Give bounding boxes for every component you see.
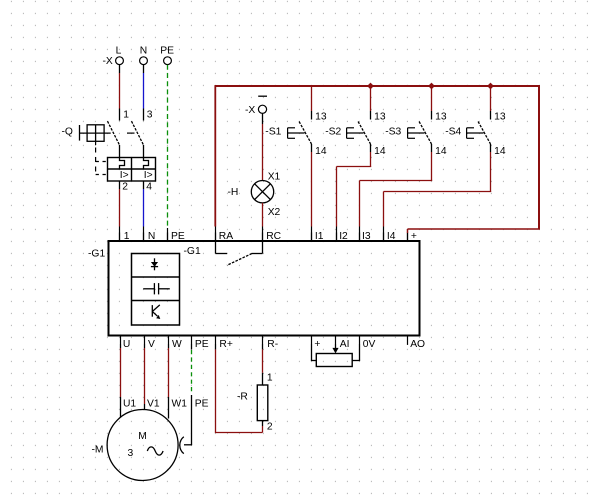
svg-text:RC: RC: [266, 231, 281, 242]
svg-text:-X: -X: [245, 105, 255, 116]
power module box inside G1: [132, 254, 180, 326]
G1 top terminal tick I4: [384, 231, 396, 242]
wire PE black tick into G1: [167, 228, 169, 241]
svg-text:-Q: -Q: [62, 127, 73, 138]
DC bus capacitor symbol: [143, 283, 170, 294]
svg-text:R-: R-: [267, 339, 278, 350]
wire W to motor: [168, 344, 170, 419]
wire N neutral: [143, 65, 145, 121]
breaker Q1 linkage horizontal dashed to trip block: [96, 162, 108, 175]
svg-text:0V: 0V: [363, 339, 376, 350]
G1 bottom terminal tick R-: [263, 336, 279, 351]
breaker Q1 thermal trip block: [108, 158, 156, 182]
potentiometer lead 0V: [352, 344, 360, 361]
svg-text:3: 3: [128, 448, 134, 459]
G1 bottom terminal tick PE: [192, 336, 209, 351]
svg-text:-G1: -G1: [184, 246, 201, 257]
G1 top terminal tick I3: [360, 231, 371, 242]
rectifier diode symbol: [151, 258, 158, 270]
svg-text:14: 14: [494, 146, 506, 157]
terminal L circle: [116, 46, 124, 65]
wire S1 to I1: [311, 152, 313, 241]
svg-text:-M: -M: [92, 445, 104, 456]
wire breaker pole1 to G1 terminal 1: [119, 181, 121, 241]
breaker Q1 thermal element pole 1: [120, 158, 125, 170]
svg-text:L: L: [116, 46, 122, 57]
wire PE green dashed: [167, 65, 169, 226]
svg-text:+: +: [411, 231, 417, 242]
svg-text:13: 13: [374, 111, 386, 122]
G1 top terminal tick RA: [216, 231, 234, 242]
inverter transistor symbol: [152, 305, 160, 319]
svg-text:-H: -H: [228, 187, 239, 198]
svg-text:1: 1: [267, 373, 273, 384]
svg-text:V: V: [148, 339, 155, 350]
G1 bottom terminal tick plus: [312, 336, 321, 351]
svg-text:-G1: -G1: [88, 249, 105, 260]
svg-text:14: 14: [374, 146, 386, 157]
wire resistor bottom: [262, 421, 264, 433]
potentiometer body: [316, 354, 352, 367]
lamp H1: [251, 181, 273, 203]
svg-text:4: 4: [146, 182, 152, 193]
wire S2 to I2: [337, 152, 372, 241]
breaker Q1 handle bar: [80, 125, 111, 141]
control bus top: [215, 85, 540, 87]
svg-text:N: N: [140, 46, 147, 57]
wire U to motor: [120, 344, 122, 418]
svg-text:-S3: -S3: [385, 127, 401, 138]
wire PE to motor frame: [184, 344, 192, 445]
svg-text:13: 13: [315, 111, 327, 122]
svg-text:1: 1: [123, 110, 129, 121]
wire L phase: [119, 65, 121, 121]
svg-text:I3: I3: [362, 231, 371, 242]
svg-text:PE: PE: [160, 46, 174, 57]
wire S3 to I3: [360, 152, 433, 241]
motor inner tilde: [147, 447, 163, 455]
breaker Q1 linkage dash: [127, 132, 135, 134]
svg-text:13: 13: [494, 111, 506, 122]
pushbutton S4: [467, 86, 491, 152]
svg-text:U1: U1: [123, 398, 136, 409]
svg-text:U: U: [123, 339, 130, 350]
wire R- to brake resistor: [262, 344, 264, 385]
wire V to motor: [144, 344, 146, 410]
wire bus left drop to RA: [214, 85, 216, 240]
brake resistor R: [257, 385, 268, 421]
G1 bottom terminal tick U: [121, 336, 131, 351]
pushbutton S1: [288, 86, 312, 152]
breaker Q1 pole 2 contact blade: [132, 121, 144, 145]
G1 bottom terminal tick AO: [408, 336, 426, 351]
G1 bottom terminal tick 0V: [360, 336, 376, 351]
junction dot at S4: [487, 83, 494, 90]
svg-text:N: N: [148, 231, 155, 242]
svg-text:R+: R+: [219, 339, 232, 350]
G1 top terminal tick RC: [263, 231, 282, 242]
terminal PE circle: [160, 46, 174, 65]
svg-text:RA: RA: [219, 231, 233, 242]
motor frame earth contact arc: [180, 437, 184, 454]
wire lamp to RC: [262, 203, 264, 241]
svg-text:2: 2: [267, 421, 273, 432]
svg-text:13: 13: [435, 111, 447, 122]
terminal N circle: [140, 46, 148, 65]
motor M1 circle: [107, 410, 178, 481]
svg-text:I>: I>: [144, 170, 153, 181]
G1 top terminal tick I1: [312, 231, 324, 242]
G1 bottom terminal tick AI: [336, 336, 350, 351]
G1 bottom terminal tick V: [145, 336, 156, 351]
svg-text:2: 2: [122, 182, 128, 193]
svg-text:W1: W1: [172, 398, 188, 409]
svg-text:+: +: [314, 339, 320, 350]
svg-text:14: 14: [315, 146, 327, 157]
svg-text:X1: X1: [268, 172, 281, 183]
G1 top terminal tick N: [144, 231, 156, 242]
svg-text:M: M: [138, 431, 147, 442]
breaker Q1 linkage vertical dashed: [95, 141, 97, 145]
svg-text:14: 14: [435, 146, 447, 157]
svg-text:3: 3: [147, 110, 153, 121]
svg-text:I4: I4: [387, 231, 396, 242]
svg-text:AO: AO: [410, 339, 425, 350]
svg-text:-S4: -S4: [445, 127, 461, 138]
svg-text:X2: X2: [268, 207, 281, 218]
G1 top terminal tick I2: [337, 231, 349, 242]
svg-text:AI: AI: [340, 339, 350, 350]
G1 top terminal tick PE: [168, 231, 185, 242]
potentiometer wiper arrow from AI: [332, 344, 338, 353]
breaker Q1 pole 2 lower lead: [143, 145, 145, 158]
wire bus right drop: [408, 85, 541, 240]
breaker Q1 pole 1 lower lead: [119, 145, 121, 158]
pushbutton S3: [408, 86, 432, 152]
drive G1 box: [109, 241, 420, 336]
breaker Q1 thermal element pole 2: [144, 158, 149, 170]
wire S4 to I4: [384, 152, 492, 241]
wire R+ to brake resistor: [215, 344, 263, 433]
svg-text:-S1: -S1: [265, 127, 281, 138]
junction dot at S3: [428, 83, 435, 90]
G1 bottom terminal tick R+: [216, 336, 233, 351]
svg-text:-R: -R: [237, 391, 248, 402]
svg-text:I2: I2: [339, 231, 348, 242]
svg-text:1: 1: [124, 231, 130, 242]
svg-text:V1: V1: [147, 398, 160, 409]
svg-text:I1: I1: [315, 231, 324, 242]
svg-text:-X: -X: [103, 56, 113, 67]
pushbutton S2: [347, 86, 371, 152]
wire X terminal to lamp: [262, 114, 264, 181]
breaker Q1 pole 1 contact blade: [108, 121, 120, 145]
potentiometer lead plus: [311, 344, 316, 361]
svg-text:W: W: [172, 339, 182, 350]
G1 bottom terminal tick W: [169, 336, 183, 351]
relay contact RA-RC inside G1: [216, 241, 263, 266]
svg-text:I>: I>: [120, 170, 129, 181]
svg-text:PE: PE: [195, 339, 209, 350]
G1 top terminal tick 1: [120, 231, 130, 242]
svg-text:PE: PE: [171, 231, 185, 242]
svg-text:PE: PE: [195, 398, 209, 409]
junction dot at S2: [367, 83, 374, 90]
breaker Q1 handle box: [87, 125, 104, 142]
svg-text:-S2: -S2: [325, 127, 341, 138]
G1 top terminal tick plus: [408, 231, 417, 242]
terminal -X control (lamp branch): [245, 96, 267, 116]
wire breaker pole2 to G1 terminal N: [143, 181, 145, 241]
